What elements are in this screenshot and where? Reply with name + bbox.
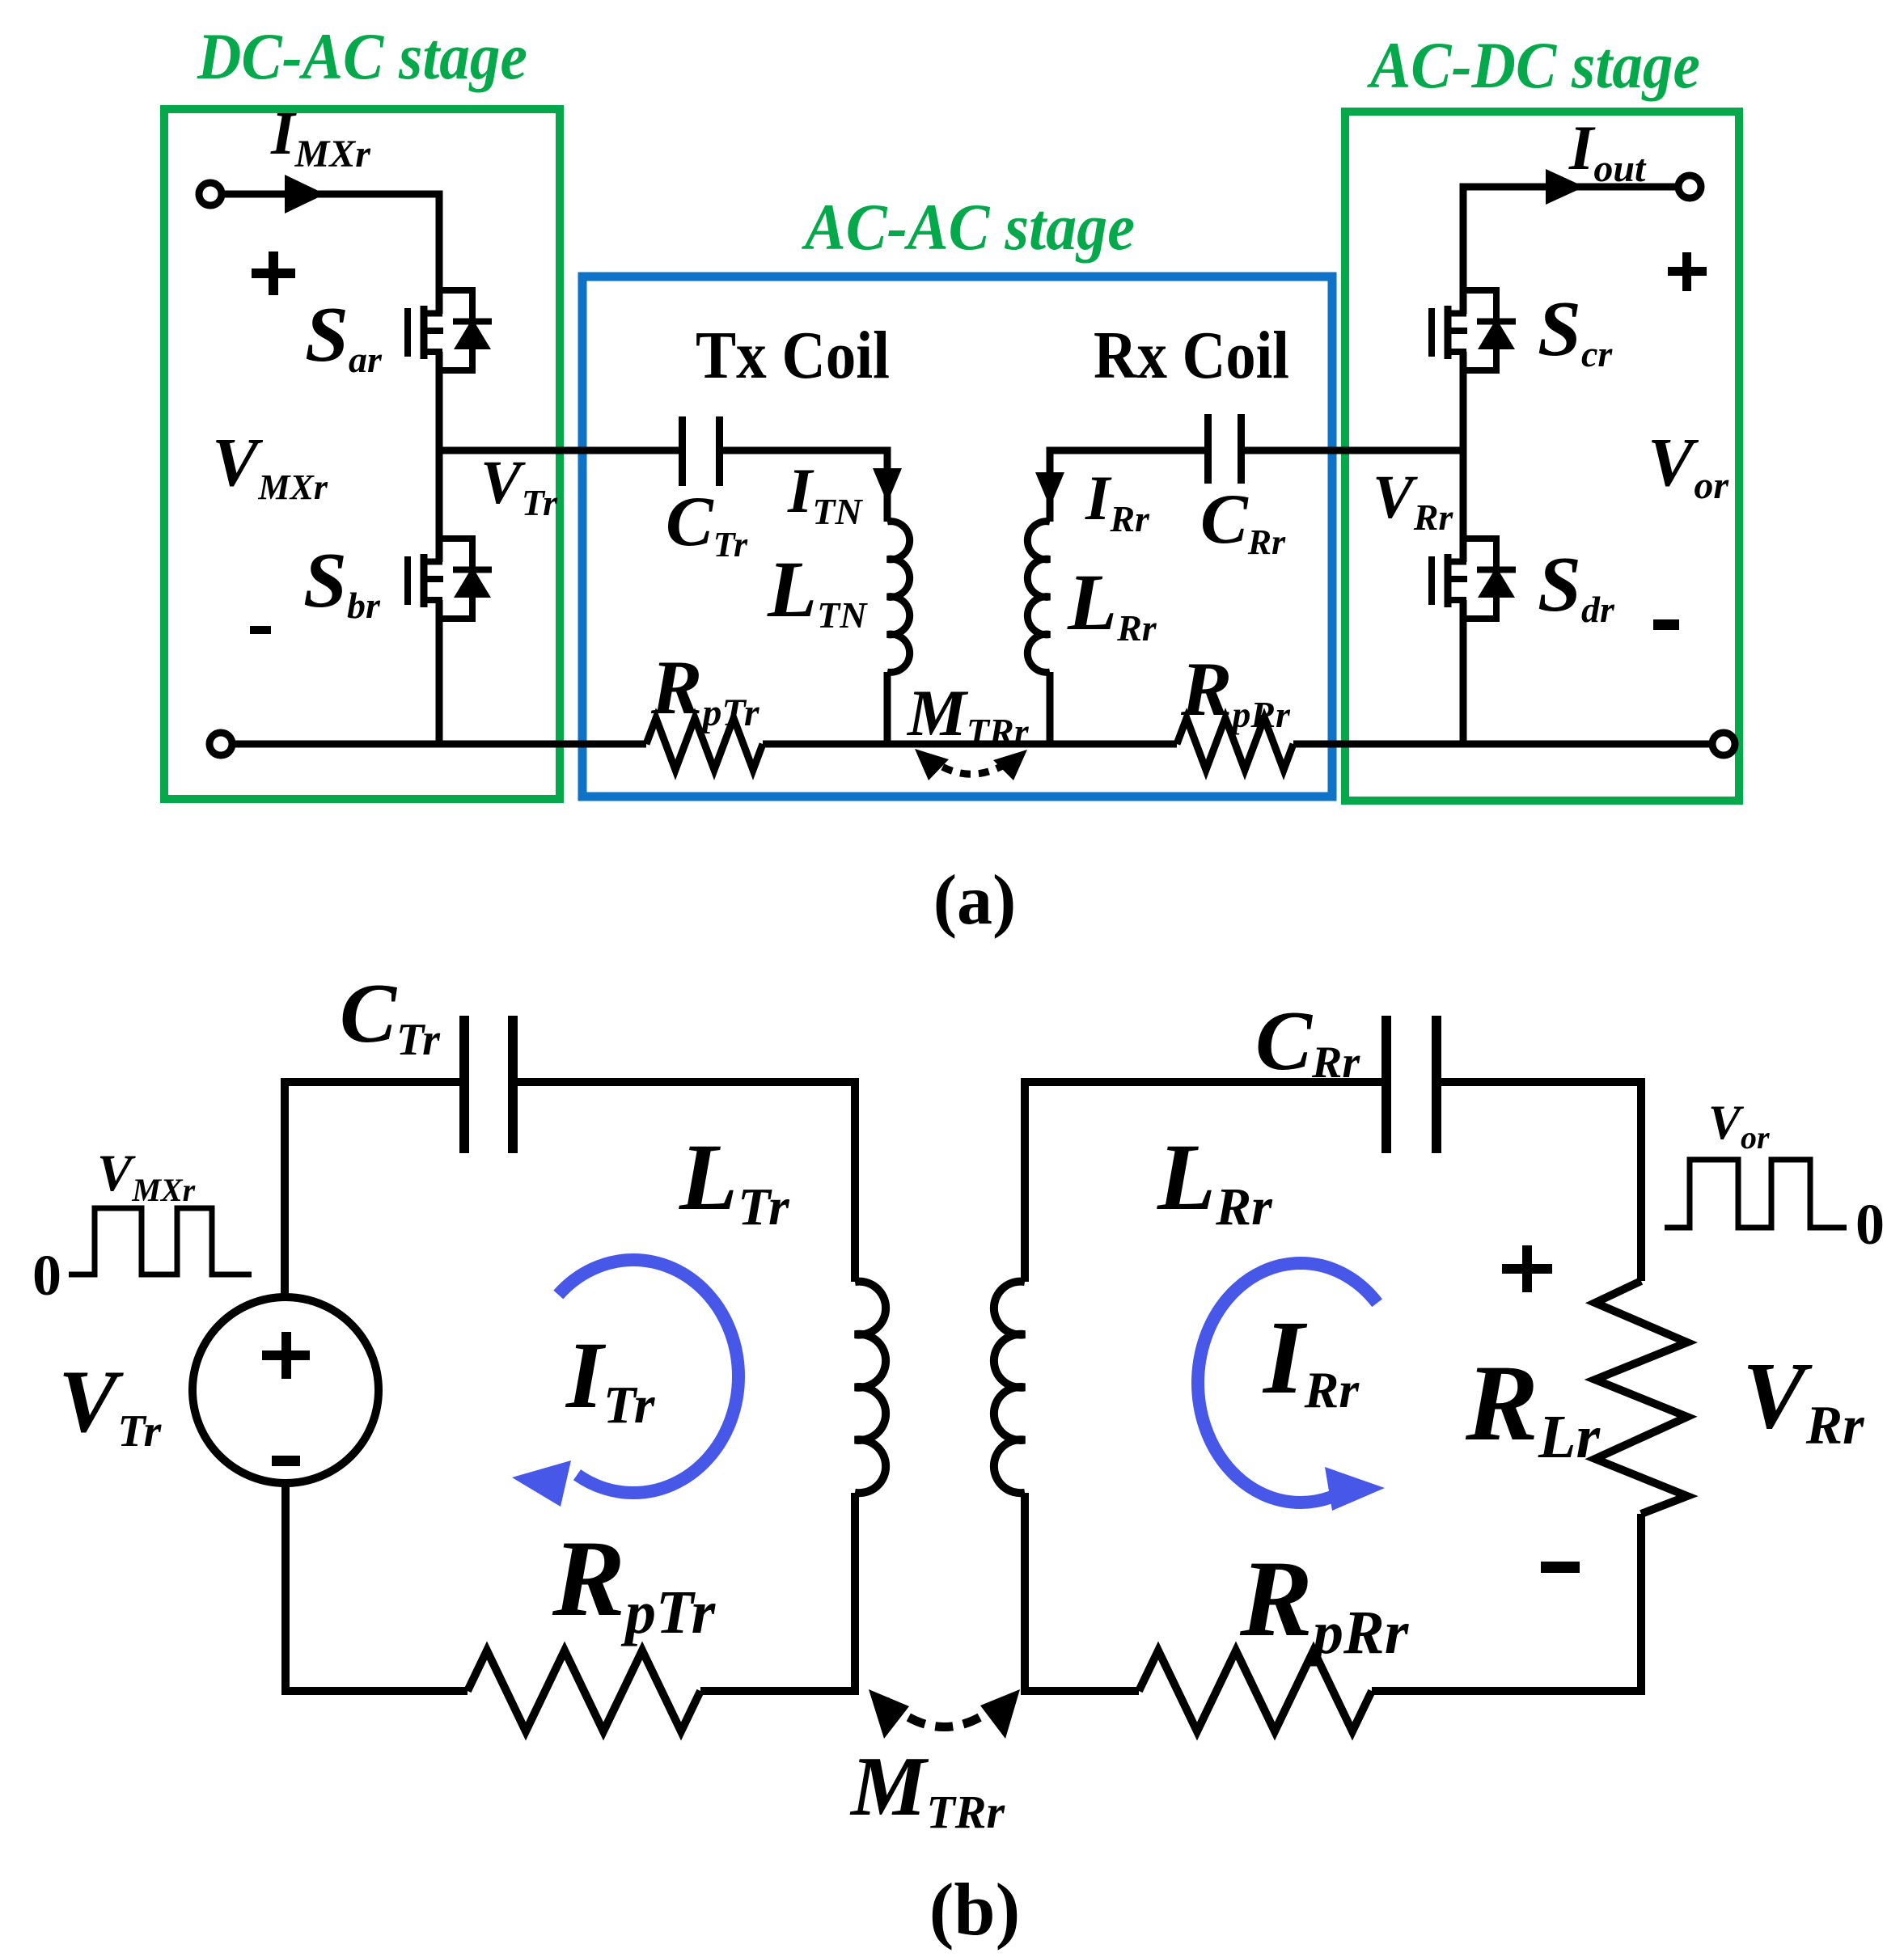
transistor S_cr [1432, 290, 1516, 370]
wire L_Rr to bottom [1025, 1493, 1139, 1691]
wire b-left top [285, 1082, 855, 1297]
svg-text:DC-AC stage: DC-AC stage [197, 19, 527, 93]
resistor R_pTr (a) [646, 718, 763, 770]
resistor R_pRr (b) [1139, 1651, 1372, 1731]
inductor L_Rr (b) [994, 1282, 1025, 1494]
wire R_Lr to bottom [1372, 1514, 1641, 1691]
wire right trunk [1460, 352, 1467, 744]
bottom wire b-right [1025, 1687, 1139, 1695]
node V_Tr wire [439, 447, 679, 454]
bottom wire b-left right part [700, 1493, 855, 1691]
svg-text:(b): (b) [929, 1868, 1020, 1951]
source V_Tr circle [193, 1297, 379, 1483]
terminal output top [1678, 175, 1701, 198]
label plus left [252, 251, 295, 295]
loop arrow I_Rr [1198, 1263, 1403, 1503]
transistor S_ar [408, 290, 492, 370]
svg-text:(a): (a) [933, 861, 1017, 940]
current arrow I_MXr [285, 175, 325, 213]
wire Tx coil to bottom [884, 672, 891, 744]
wire cap to Tx coil [723, 450, 887, 522]
inductor L_TN [887, 522, 910, 673]
node V_Rr wire [1245, 447, 1463, 454]
resistor R_Lr (b) [1595, 1281, 1687, 1514]
mutual coupling dashed arrow (b) [886, 1701, 1003, 1727]
svg-text:0: 0 [32, 1243, 61, 1308]
wire source to bottom [286, 1483, 468, 1691]
wire Rx top [1050, 450, 1204, 522]
waveform V_MXr [69, 1208, 252, 1274]
output wire top [1463, 187, 1678, 314]
resistor R_pRr (a) [1177, 718, 1293, 770]
label minus right [1653, 619, 1679, 630]
wire left trunk [436, 352, 443, 744]
capacitor C_Tr (b) [459, 1016, 518, 1153]
mutual coupling dashed arrow (a) [927, 757, 1015, 774]
waveform V_or [1665, 1160, 1847, 1228]
wire input top [222, 194, 439, 314]
source minus [272, 1456, 300, 1466]
svg-text:Tx Coil: Tx Coil [696, 318, 890, 393]
AC-AC stage blue box [582, 277, 1332, 797]
wire Rx coil to bottom [1047, 672, 1054, 744]
svg-text:AC-AC stage: AC-AC stage [801, 190, 1135, 264]
label plus right [1668, 252, 1707, 291]
label minus left [250, 626, 271, 634]
bottom wire right [1293, 741, 1712, 748]
terminal input top [199, 183, 222, 205]
terminal output bottom [1712, 733, 1735, 755]
label plus (b) [1502, 1245, 1552, 1292]
resistor R_pTr (b) [468, 1651, 700, 1731]
loop arrow I_Tr [528, 1260, 738, 1493]
capacitor C_Rr (b) [1381, 1016, 1441, 1153]
inductor L_Rr (a) [1027, 522, 1050, 673]
capacitor C_Tr (a) [679, 416, 723, 486]
transistor S_br [408, 539, 492, 619]
svg-text:0: 0 [1855, 1192, 1885, 1257]
source plus [262, 1332, 310, 1379]
AC-DC stage green box [1345, 112, 1739, 801]
wire b-right top [1025, 1082, 1641, 1282]
DC-AC stage green box [164, 109, 560, 799]
current arrow I_TN [873, 468, 902, 503]
label minus (b) [1541, 1562, 1580, 1573]
terminal input bottom [209, 733, 232, 755]
current arrow I_Rr (a) [1035, 472, 1064, 507]
current arrow I_out [1546, 169, 1585, 205]
bottom wire mid [763, 741, 1177, 748]
bottom wire left [232, 741, 646, 748]
inductor L_Tr (b) [855, 1282, 886, 1494]
transistor S_dr [1432, 539, 1516, 619]
capacitor C_Rr (a) [1204, 414, 1245, 484]
svg-text:Rx Coil: Rx Coil [1094, 318, 1289, 393]
svg-text:AC-DC stage: AC-DC stage [1366, 28, 1700, 102]
